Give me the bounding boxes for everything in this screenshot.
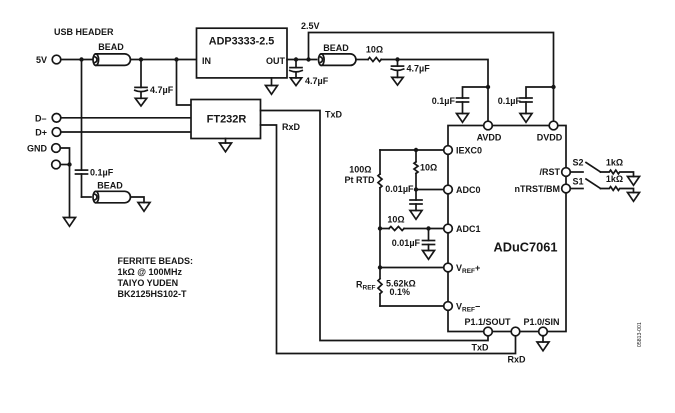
svg-text:10Ω: 10Ω <box>366 45 383 55</box>
svg-text:10Ω: 10Ω <box>387 215 404 225</box>
svg-text:2.5V: 2.5V <box>301 21 320 31</box>
wire ADC0 row <box>416 189 444 191</box>
ground under U2 <box>220 139 232 152</box>
svg-text:5V: 5V <box>36 55 47 65</box>
svg-text:100Ω: 100Ω <box>349 165 371 175</box>
svg-text:BEAD: BEAD <box>323 43 349 53</box>
pin nTRST/BM <box>515 184 571 194</box>
ground under GND pins <box>64 218 76 227</box>
wire RxD from FT232R <box>261 125 516 354</box>
wire bead B3 to ground <box>131 197 145 203</box>
svg-text:RxD: RxD <box>282 122 301 132</box>
svg-text:FT232R: FT232R <box>207 114 247 126</box>
ground under C3 <box>392 77 403 85</box>
pin VREF+ <box>444 263 481 275</box>
svg-text:GND: GND <box>27 144 48 154</box>
ground under C5 <box>520 114 532 123</box>
svg-text:4.7µF: 4.7µF <box>150 85 174 95</box>
chip U2 FT232R <box>191 100 261 139</box>
node C3 junction <box>395 57 399 61</box>
node ADC0 junction <box>414 187 418 191</box>
wire D+ to FT232R <box>61 131 191 133</box>
chip U3 ADuC7061 <box>448 126 566 332</box>
svg-text:0.01µF: 0.01µF <box>385 184 414 194</box>
node 2.5V rail junction <box>306 57 310 61</box>
capacitor C3 4.7uF <box>391 60 430 78</box>
svg-text:TxD: TxD <box>325 110 343 120</box>
node FT232R VCC junction <box>174 57 178 61</box>
pin P1.0/SIN <box>523 317 559 336</box>
svg-text:ADC0: ADC0 <box>456 185 481 195</box>
wire VREF+ row <box>380 267 444 269</box>
node IEXC0 junction <box>414 148 418 152</box>
resistor R3 1kohm <box>601 174 634 193</box>
node OUT junction <box>294 57 298 61</box>
svg-text:D–: D– <box>35 113 47 123</box>
svg-text:nTRST/BM: nTRST/BM <box>515 184 561 194</box>
svg-text:OUT: OUT <box>266 56 286 66</box>
svg-text:TxD: TxD <box>471 343 489 353</box>
pin GND <box>27 144 60 154</box>
pin /RST <box>539 167 570 177</box>
svg-text:S2: S2 <box>573 158 584 168</box>
capacitor C1 4.7uF <box>135 60 174 99</box>
capacitor C7 0.01uF <box>385 184 422 211</box>
svg-text:BEAD: BEAD <box>97 181 123 191</box>
node VREF+ junction <box>378 265 382 269</box>
resistor R6 10ohm <box>380 215 444 231</box>
wire D- to FT232R <box>61 117 191 119</box>
svg-text:DVDD: DVDD <box>537 133 563 143</box>
svg-text:IEXC0: IEXC0 <box>456 146 482 156</box>
pin ADC1 <box>444 224 481 234</box>
wire R1 to AVDD corner <box>381 60 488 122</box>
svg-text:0.1µF: 0.1µF <box>498 96 522 106</box>
svg-text:ADP3333-2.5: ADP3333-2.5 <box>209 35 274 47</box>
svg-text:0.1µF: 0.1µF <box>90 168 114 178</box>
resistor R4 100ohm PtRTD <box>345 165 383 188</box>
resistor R1 10ohm <box>366 45 383 62</box>
switch S2 <box>571 158 601 173</box>
node DVDD cap junction <box>551 85 555 89</box>
svg-text:IN: IN <box>202 56 211 66</box>
pin mid SIN junction <box>511 327 520 336</box>
resistor R2 1kohm <box>601 158 634 177</box>
pin P1.1/SOUT <box>464 317 511 336</box>
pin D- <box>35 113 61 123</box>
svg-text:4.7µF: 4.7µF <box>305 76 329 86</box>
resistor R5 10ohm vertical <box>414 150 437 190</box>
ground under C1 <box>135 98 146 106</box>
svg-text:0.01µF: 0.01µF <box>392 238 421 248</box>
pin DVDD <box>537 121 563 143</box>
wire 2.5V rail to DVDD <box>309 33 554 122</box>
svg-text:USB HEADER: USB HEADER <box>54 27 114 37</box>
svg-text:1kΩ: 1kΩ <box>606 174 623 184</box>
ground under U1 <box>266 78 278 94</box>
ground under C2 <box>290 78 301 86</box>
svg-text:/RST: /RST <box>539 167 560 177</box>
wire OUT to bead B2 <box>287 59 317 61</box>
wire IEXC0 row <box>380 149 444 151</box>
pin AVDD <box>477 121 502 143</box>
ground under C4 <box>457 114 469 123</box>
ground after R3 <box>628 193 640 202</box>
capacitor C4 0.1uF AVDD <box>432 87 488 114</box>
ferrite bead B2 <box>319 43 356 65</box>
pin D+ <box>35 128 61 138</box>
ferrite bead B3 <box>82 181 131 203</box>
pin ADC0 <box>444 185 481 195</box>
op-amp U1 ADP3333-2.5 regulator box <box>197 28 288 78</box>
note FERRITE BEADS <box>118 256 194 299</box>
pin VREF- <box>444 302 481 314</box>
svg-text:BEAD: BEAD <box>98 42 124 52</box>
capacitor C8 0.01uF <box>392 229 435 251</box>
wire GND2 <box>61 164 70 166</box>
wire VREF- row <box>380 305 444 307</box>
ferrite bead B1 <box>93 42 130 65</box>
svg-text:AVDD: AVDD <box>477 133 502 143</box>
pin 5V <box>36 55 61 65</box>
capacitor C2 4.7uF <box>290 60 329 87</box>
svg-text:0.1µF: 0.1µF <box>432 96 456 106</box>
wire bead to ADP3333 IN <box>131 59 197 61</box>
pin GND2 <box>52 160 61 169</box>
svg-text:0.1%: 0.1% <box>390 287 411 297</box>
wire VCC drop to FT232R <box>177 60 192 106</box>
ground after R2 <box>628 177 640 186</box>
svg-text:S1: S1 <box>573 177 584 187</box>
svg-text:BK2125HS102-T: BK2125HS102-T <box>118 289 188 299</box>
node GND junction <box>67 162 71 166</box>
wire left vertical 2 <box>379 188 381 229</box>
capacitor C6 0.1uF <box>76 60 114 198</box>
node ADC1 cap junction <box>426 226 430 230</box>
pin IEXC0 <box>444 146 482 156</box>
svg-text:FERRITE BEADS:: FERRITE BEADS: <box>118 256 194 266</box>
svg-text:D+: D+ <box>35 128 47 138</box>
ground under C8 <box>423 251 435 260</box>
svg-text:RxD: RxD <box>507 355 526 365</box>
svg-text:P1.1/SOUT: P1.1/SOUT <box>464 317 511 327</box>
resistor R7 RREF 5.62kohm <box>356 279 416 307</box>
wire GND down <box>61 148 70 218</box>
wire 5V to bead <box>61 59 92 61</box>
wire bead B2 to R1 <box>356 59 368 61</box>
svg-text:P1.0/SIN: P1.0/SIN <box>523 317 559 327</box>
wire left vertical 3 <box>379 229 381 279</box>
switch S1 <box>571 177 601 189</box>
node C1 junction <box>139 57 143 61</box>
svg-text:1kΩ: 1kΩ <box>606 158 623 168</box>
wire TxD from FT232R <box>261 111 489 341</box>
svg-text:10Ω: 10Ω <box>420 163 437 173</box>
svg-text:4.7µF: 4.7µF <box>407 64 431 74</box>
node 5V junction <box>79 57 83 61</box>
ground under C7 <box>410 211 422 220</box>
capacitor C5 0.1uF DVDD <box>498 87 554 114</box>
node ADC1 left junction <box>378 226 382 230</box>
svg-text:ADC1: ADC1 <box>456 224 481 234</box>
node AVDD cap junction <box>486 85 490 89</box>
ground after B3 <box>138 203 150 212</box>
svg-text:TAIYO YUDEN: TAIYO YUDEN <box>118 278 179 288</box>
wire left vertical <box>379 150 381 174</box>
ground under P1.0/SIN <box>537 336 549 351</box>
svg-text:1kΩ @ 100MHz: 1kΩ @ 100MHz <box>118 267 183 277</box>
svg-text:05813-001: 05813-001 <box>637 322 643 347</box>
svg-text:Pt RTD: Pt RTD <box>345 175 375 185</box>
svg-text:ADuC7061: ADuC7061 <box>493 239 557 254</box>
